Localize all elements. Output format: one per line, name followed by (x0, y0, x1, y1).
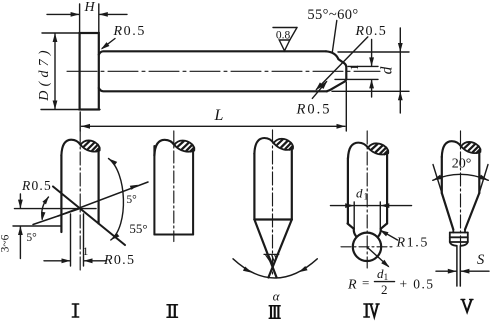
R1.5 leader (381, 231, 398, 240)
dimension 1 top extension line (348, 65, 378, 67)
cone left edge (254, 220, 276, 278)
bevel 55 line (53, 187, 125, 246)
alpha arc arrow right (297, 266, 307, 274)
label IV (364, 304, 379, 317)
rod IV right edge (386, 153, 388, 223)
svg-text:H: H (83, 0, 95, 15)
collar left bottom curve (450, 242, 457, 246)
surface finish triangle (279, 40, 290, 51)
surface finish 0.8 overline (273, 27, 297, 29)
svg-text:D(d7): D(d7) (37, 46, 52, 101)
20 deg right leg (479, 165, 488, 196)
1 arrow down (369, 57, 374, 66)
collar right side (467, 233, 469, 243)
dim 1 ext left (70, 214, 72, 266)
R0.5 tip top leader (316, 37, 367, 90)
thin tip right (459, 246, 461, 286)
surface finish tail (290, 28, 297, 41)
ball radius leader arrow (381, 260, 391, 270)
rod I right edge (97, 150, 99, 223)
L extension line right (end face extension) (345, 82, 347, 131)
alpha arc arrow left (243, 266, 253, 274)
d1 extension line right (379, 202, 381, 229)
left small arc (42, 197, 49, 219)
S arrow right (460, 269, 469, 274)
R0.5 tip bottom leader (312, 82, 326, 99)
L arrow left (81, 124, 90, 129)
alpha angle arc (233, 259, 317, 278)
svg-text:R0.5: R0.5 (103, 253, 135, 268)
rod III right edge (291, 149, 293, 220)
extension line B (13, 225, 62, 227)
cone tip hatch boundary (264, 253, 279, 255)
svg-text:R: R (347, 278, 357, 293)
formula R = d1/2 + 0.5 (347, 266, 434, 297)
D extension line bottom (41, 109, 100, 111)
left arc arrow top (42, 195, 50, 204)
shaft bottom line with fillet (99, 88, 327, 91)
svg-text:1: 1 (349, 64, 361, 70)
R0.5 head fillet leader (102, 39, 115, 49)
svg-text:R0.5: R0.5 (21, 178, 52, 193)
ball (353, 233, 381, 261)
d1 arrow right (380, 203, 389, 208)
H extension line left (79, 4, 81, 32)
collar bottom line (450, 241, 468, 243)
dimension 1 bottom extension line (335, 78, 378, 80)
3~6 bottom arrow shaft (19, 226, 21, 258)
R0.5 tip bottom leader arrow (320, 79, 329, 89)
shaft top line with fillet (99, 51, 326, 54)
ball radius leader (367, 247, 388, 266)
centerline main shaft (67, 70, 380, 72)
label V (461, 300, 473, 312)
svg-text:α: α (273, 289, 281, 304)
label III (269, 306, 280, 318)
dimension 1 bottom arrow shaft (371, 80, 373, 97)
big arc arrow top (107, 157, 117, 166)
rod I centerline (79, 131, 81, 273)
neck left (354, 229, 356, 237)
taper right (465, 193, 479, 230)
d extension line bottom (332, 90, 409, 92)
20 arc arrow right (479, 175, 489, 183)
collar mid line (450, 236, 468, 238)
20 arc arrow left (432, 175, 442, 183)
neck left (452, 230, 454, 233)
extension line A tip level (15, 208, 97, 210)
3~6 arrow up (18, 226, 23, 235)
S dim line left (436, 270, 457, 272)
d1 dimension line (331, 205, 412, 207)
dimension 1 top arrow shaft (371, 40, 373, 67)
dim 1 ext right (83, 214, 85, 266)
d1 arrow left (345, 203, 354, 208)
svg-text:S: S (477, 252, 485, 268)
svg-text:+ 0.5: + 0.5 (400, 277, 435, 292)
svg-text:1: 1 (83, 246, 89, 258)
20 deg left leg (433, 165, 443, 196)
H arrow right (99, 12, 108, 17)
head outline (80, 33, 99, 110)
dimension H line right segment (100, 13, 128, 15)
svg-text:3~6: 3~6 (0, 234, 12, 252)
rod II left edge (153, 146, 155, 235)
L arrow right (337, 124, 346, 129)
S arrow left (448, 269, 457, 274)
H extension line right (98, 4, 100, 32)
svg-text:R0.5: R0.5 (113, 24, 146, 39)
dim 1 arrow left (62, 258, 71, 263)
dim 1 line right (84, 260, 106, 262)
rod II bottom edge (154, 233, 193, 235)
dimension d line (399, 28, 401, 113)
20 deg arc (433, 174, 489, 180)
rod III centerline (272, 130, 274, 277)
svg-text:R0.5: R0.5 (296, 102, 332, 118)
big arc right (109, 159, 124, 241)
rod V right edge (478, 152, 480, 193)
5 deg upper line (58, 182, 148, 216)
d1 extension line left (353, 202, 355, 229)
label II (167, 305, 178, 317)
rod III break top (254, 138, 293, 154)
collar top line (450, 232, 468, 234)
R1.5 leader arrow (378, 228, 388, 237)
neck right (464, 230, 466, 233)
tip outline (chamfered rounded end) (326, 51, 346, 91)
rod II right edge (192, 151, 194, 235)
dimension L line (82, 125, 346, 127)
H arrow left (71, 12, 80, 17)
rod I left edge (60, 155, 62, 232)
rod III left edge (253, 153, 255, 219)
step left (348, 224, 354, 229)
dim 1 arrow right (84, 258, 93, 263)
dim 1 line left (44, 260, 70, 262)
neck right (378, 229, 380, 237)
fraction bar (375, 281, 395, 283)
taper left (442, 193, 454, 230)
rod III body bottom line (254, 218, 291, 220)
step right (381, 224, 387, 229)
rod II centerline (173, 131, 175, 242)
5 deg lower line (33, 209, 80, 225)
d arrow top (398, 43, 403, 52)
svg-text:L: L (214, 107, 224, 124)
label I (72, 304, 78, 317)
rod IV centerline (366, 131, 368, 268)
D arrow bottom (53, 101, 58, 110)
rod V left edge (441, 157, 443, 193)
big arc arrow bottom (109, 233, 119, 242)
cone tip hatch lines (266, 255, 277, 264)
d extension line top (338, 51, 409, 53)
cone right edge (268, 220, 291, 278)
leader 55~60 (332, 21, 337, 53)
D arrow top (53, 33, 58, 42)
svg-text:R0.5: R0.5 (355, 24, 388, 39)
svg-text:d: d (379, 66, 396, 74)
rod I break top (61, 140, 99, 156)
rod V break top (442, 141, 481, 157)
dimension D line (54, 34, 56, 110)
collar left side (449, 233, 451, 243)
svg-text:5°: 5° (126, 194, 137, 206)
svg-text:2: 2 (381, 282, 388, 297)
rod IV left edge (347, 158, 349, 224)
1 arrow up (369, 79, 374, 88)
rod II break top (154, 140, 194, 156)
thin tip left (456, 246, 458, 286)
rod V centerline (460, 131, 462, 246)
collar right bottom curve (461, 242, 468, 246)
3~6 top arrow shaft (19, 194, 21, 208)
S dim line right (461, 270, 489, 272)
svg-text:R1.5: R1.5 (396, 236, 429, 251)
small arrow at 5 deg line (130, 183, 139, 190)
ball horizontal centerline (341, 246, 393, 248)
svg-text:20°: 20° (452, 157, 472, 172)
D extension line top (42, 32, 79, 34)
svg-text:5°: 5° (26, 232, 37, 244)
svg-text:55°~60°: 55°~60° (307, 7, 358, 23)
3~6 arrow down (18, 200, 23, 209)
left arc arrow bottom (40, 212, 45, 220)
R0.5 tip top leader arrow (314, 82, 324, 92)
R0.5 head fillet leader arrow (99, 42, 109, 51)
d arrow bottom (398, 91, 403, 100)
L extension line left (79, 112, 81, 131)
svg-text:=: = (362, 275, 369, 290)
dimension H line left segment (47, 13, 79, 15)
svg-text:55°: 55° (129, 221, 147, 236)
rod IV break top (348, 143, 388, 159)
